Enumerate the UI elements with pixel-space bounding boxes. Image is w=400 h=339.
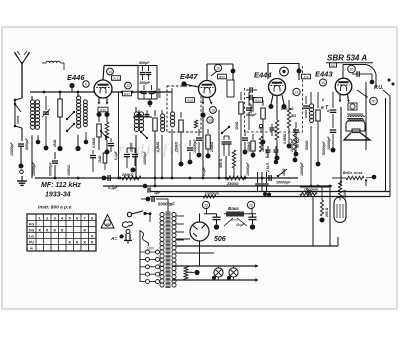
box label R19 (186, 98, 195, 103)
pickup arrow (357, 90, 367, 97)
resistor 500k E444 (275, 120, 279, 140)
svg-text:12: 12 (126, 84, 130, 88)
svg-text:4-9: 4-9 (304, 75, 309, 79)
bus earth y178 (35, 177, 298, 179)
svg-text:c: c (306, 187, 308, 191)
tube E446 (94, 80, 112, 98)
svg-text:2: 2 (46, 217, 48, 221)
svg-text:50000pF: 50000pF (322, 141, 326, 155)
bus y191.5 (150, 191, 390, 193)
badge 16 (210, 107, 217, 114)
svg-text:100KΩ: 100KΩ (67, 165, 71, 176)
capacitor 10000pF aerial (21, 128, 23, 141)
screen resistor (106, 116, 108, 122)
caps x333 column (332, 92, 334, 108)
speaker magnet (346, 121, 365, 131)
caps pair stage E444 (249, 87, 251, 93)
svg-text:50000: 50000 (305, 140, 309, 150)
dial lamp 2 (229, 268, 238, 277)
svg-text:E446: E446 (67, 73, 85, 82)
wire sw to transformer (149, 212, 152, 215)
output transformer windings (348, 116, 364, 117)
svg-text:50 KΩ: 50 KΩ (296, 138, 300, 148)
svg-text:15: 15 (204, 203, 208, 207)
blob grid E446 (69, 83, 74, 88)
resistor anode E446 (98, 116, 100, 122)
svg-text:250kΩ: 250kΩ (175, 141, 179, 153)
tube E443 pins arrows (339, 95, 341, 102)
shield box IF2 (245, 66, 303, 132)
badge 26 (348, 65, 356, 73)
power transformer core (166, 212, 171, 288)
svg-text:250kΩ: 250kΩ (247, 141, 251, 153)
coil L4 (84, 100, 88, 104)
secondary winding loops (172, 212, 176, 216)
switch S1 aerial (15, 98, 22, 128)
svg-text:SBR 534 A: SBR 534 A (327, 54, 367, 63)
svg-text:50000pF: 50000pF (49, 162, 53, 176)
wire stage3 bottoms (171, 146, 173, 178)
wire antenna-stage1 (21, 92, 23, 100)
box label R17 (123, 91, 132, 96)
resistor sopr2 (300, 192, 317, 195)
resistor 250k stage3 (180, 112, 182, 118)
svg-text:250kΩ: 250kΩ (210, 141, 214, 153)
ground (21, 176, 23, 181)
svg-text:1μF: 1μF (154, 191, 161, 195)
resistor 2500 ohm bus (227, 176, 246, 180)
badge 5 (83, 81, 89, 87)
resistor field coil (346, 176, 364, 180)
capacitor 500pF b (148, 66, 150, 72)
zig 1000 (232, 150, 235, 168)
grid leak E444 (262, 100, 264, 106)
wire stage5 bottom (310, 152, 312, 186)
arrow field (365, 180, 367, 186)
svg-text:19: 19 (321, 81, 325, 85)
svg-text:MF: 112 kHz: MF: 112 kHz (41, 182, 81, 189)
badge 10 (214, 64, 221, 71)
speaker cone (344, 133, 370, 140)
coil L1 (31, 96, 33, 100)
box label KK (330, 63, 337, 67)
wire x313 drop (312, 197, 314, 247)
smoothing cap right (252, 214, 254, 217)
badge grid cap E444 (280, 67, 289, 76)
svg-text:250KΩ: 250KΩ (121, 173, 134, 177)
anode blob E447 (181, 81, 186, 86)
svg-text:300 Ω: 300 Ω (219, 158, 223, 168)
svg-text:8: 8 (91, 217, 93, 221)
svg-text:5: 5 (69, 217, 71, 221)
svg-text:10: 10 (216, 66, 220, 70)
svg-text:x: x (68, 239, 71, 244)
wire rect cathode drop (199, 241, 201, 266)
blobs under trio (263, 192, 267, 196)
primary winding loops (160, 212, 164, 216)
fuse cloud (122, 222, 132, 228)
svg-text:0,5MΩ: 0,5MΩ (92, 137, 96, 148)
wire rect left (176, 238, 190, 240)
wire E443 top (342, 65, 344, 79)
svg-text:10000: 10000 (16, 115, 20, 124)
smoothing cap left (216, 214, 218, 217)
capacitor pair b (134, 148, 136, 153)
badge 12 (125, 82, 132, 89)
svg-text:OG: OG (29, 228, 35, 232)
svg-text:1933-34: 1933-34 (45, 192, 71, 199)
speaker neck (352, 129, 360, 133)
resistor 280 vertical (338, 181, 341, 198)
svg-text:x: x (91, 239, 94, 244)
svg-text:KG: KG (29, 222, 35, 226)
wire top bus stage1 (30, 91, 172, 93)
wire stage2 bottom (135, 152, 137, 178)
svg-text:0,1μF: 0,1μF (202, 166, 206, 176)
svg-text:14: 14 (108, 70, 112, 74)
svg-text:800pF: 800pF (246, 113, 257, 117)
svg-text:w: w (29, 246, 33, 250)
svg-text:0,1μF: 0,1μF (108, 186, 118, 190)
bus y196.5 (150, 196, 390, 198)
caps E443 grid (305, 96, 307, 104)
svg-text:110V: 110V (147, 247, 155, 251)
capacitor 10000pF E447 (198, 129, 200, 136)
svg-text:radiofil: radiofil (118, 142, 183, 158)
caps trio x262 (261, 172, 263, 183)
wire smoothing bus (204, 213, 217, 215)
svg-text:500 kΩ: 500 kΩ (281, 107, 294, 111)
resistor 2M (58, 99, 62, 117)
wire right top curve (366, 65, 376, 89)
capacitor x93 (92, 150, 94, 154)
coil x162 (161, 110, 163, 114)
svg-text:5Ω: 5Ω (291, 114, 296, 118)
svg-text:200 Ω: 200 Ω (325, 207, 329, 218)
tube E447 pins (202, 97, 204, 103)
tube E443 (335, 78, 352, 95)
fuse wiggle (140, 231, 149, 246)
box label R13 (98, 107, 108, 112)
trimmer C2 (45, 96, 47, 110)
svg-text:10000pF: 10000pF (327, 136, 331, 150)
wire right vertical b (389, 96, 391, 197)
capacitor 1uF bus left (147, 188, 149, 193)
capacitor col x249 (248, 92, 250, 106)
svg-text:8000pF: 8000pF (25, 137, 29, 150)
resistor 250k box E447 (207, 129, 209, 134)
svg-text:Вобл. пч ка: Вобл. пч ка (343, 171, 362, 175)
svg-text:x: x (76, 239, 79, 244)
capacitor 500pF a (142, 66, 144, 72)
dial lamp 1 (214, 268, 223, 277)
switch wave change (67, 112, 74, 119)
caps row y150 a (267, 146, 269, 149)
svg-text:0,5MΩ: 0,5MΩ (283, 133, 287, 144)
svg-text:x: x (53, 227, 56, 232)
wires lamp (300, 186, 330, 188)
svg-text:x: x (83, 239, 86, 244)
svg-text:800pF: 800pF (249, 102, 253, 113)
zig stage4 (259, 136, 262, 152)
wire pu corner (371, 74, 373, 80)
tube E446 pins (98, 98, 100, 104)
mains switch (127, 212, 131, 216)
resistor 250k stage4 (252, 134, 254, 140)
svg-text:Instr. 800 a p.v.: Instr. 800 a p.v. (38, 205, 72, 211)
switch diag buses (278, 169, 287, 176)
svg-text:P.U.: P.U. (374, 85, 383, 91)
caps row y150 b (275, 146, 277, 149)
badge stub a (206, 208, 208, 214)
capacitor 0.1uF bus (107, 175, 109, 181)
coil L2 (35, 100, 39, 104)
svg-text:10000pF: 10000pF (193, 139, 197, 153)
svg-text:E447: E447 (180, 72, 198, 81)
wire stage1 bottom (31, 160, 33, 178)
aerial input coil (46, 61, 60, 63)
caps pair stage3 (223, 136, 225, 140)
vertical wire x219 (218, 110, 220, 178)
svg-text:R21: R21 (219, 75, 225, 79)
svg-text:5: 5 (85, 82, 87, 86)
svg-text:26: 26 (350, 67, 354, 71)
cap C top E443 (356, 71, 358, 77)
svg-text:R19: R19 (187, 99, 193, 103)
svg-text:10000pF: 10000pF (300, 162, 304, 176)
svg-text:16: 16 (211, 108, 215, 112)
switch diag x144 (141, 132, 147, 138)
box label R21 (218, 74, 227, 79)
tube E447 (199, 81, 216, 98)
svg-text:14-11: 14-11 (112, 77, 120, 81)
capacitor pair a (126, 148, 128, 153)
svg-text:30: 30 (372, 99, 376, 103)
svg-text:26: 26 (249, 203, 253, 207)
svg-text:x: x (61, 227, 64, 232)
bus y186 (103, 185, 332, 187)
caps trio x266 (266, 172, 268, 183)
svg-text:x: x (38, 227, 41, 232)
svg-text:7: 7 (84, 217, 86, 221)
coil IF1 secondary (139, 112, 143, 116)
badge 14 (107, 68, 114, 75)
tube E444 pins (271, 95, 273, 104)
antenna (21, 62, 23, 98)
wire hv right drop (337, 237, 339, 246)
pointer lines (224, 218, 233, 226)
blob coupling (148, 101, 153, 106)
svg-text:1МΩ: 1МΩ (98, 155, 102, 163)
capacitor x272 (271, 124, 273, 127)
capacitor 0.1uF stage2 (110, 138, 112, 142)
svg-text:2500Ω: 2500Ω (226, 182, 238, 186)
svg-text:506: 506 (214, 236, 226, 243)
wire stage4 (240, 130, 242, 178)
tube E444 (269, 79, 286, 96)
coil L3 (77, 96, 81, 100)
svg-text:800pF: 800pF (140, 81, 151, 85)
trimmer T stage4 (259, 124, 262, 127)
badge 15 (202, 201, 209, 208)
svg-text:3: 3 (54, 217, 56, 221)
svg-text:0,5MΩ: 0,5MΩ (156, 141, 160, 152)
heater line 1 (172, 265, 256, 267)
junction dots bus2 (154, 185, 157, 188)
svg-text:800pF: 800pF (158, 87, 162, 98)
caps x296 pair (295, 122, 297, 128)
resistor 50K x295 (294, 128, 296, 132)
wire E444 top box (268, 64, 299, 81)
svg-text:300Ω: 300Ω (235, 121, 239, 130)
resistor sopr (203, 195, 216, 198)
svg-text:x: x (83, 227, 86, 232)
wire right vertical a (385, 98, 387, 192)
resistor R stage2 (154, 110, 156, 116)
svg-text:10000pF: 10000pF (32, 162, 36, 176)
svg-text:Вакг: Вакг (228, 206, 239, 211)
resistor 200 vertical (321, 187, 323, 200)
wire left drop (34, 171, 36, 178)
badge 22 (293, 88, 300, 95)
wire coupling (149, 99, 151, 107)
svg-text:10000pF: 10000pF (246, 162, 250, 176)
capacitor 50000pF psu (151, 196, 153, 202)
selector table (27, 214, 96, 251)
resistor zig stage3 (194, 120, 197, 128)
svg-text:R17: R17 (124, 92, 130, 96)
capacitor 100pF mid (244, 130, 246, 136)
grid cap E447 box (227, 80, 234, 97)
wire y253 (176, 252, 214, 254)
wire grid-cap E446 (104, 65, 138, 67)
coil x311 (310, 92, 312, 104)
badge in box 27 (348, 103, 357, 110)
primary tap circles (146, 250, 150, 254)
choke block (226, 212, 244, 217)
svg-text:0,1μF: 0,1μF (114, 150, 118, 160)
svg-text:PU: PU (29, 240, 34, 244)
badge 18 (207, 117, 213, 123)
ballast lamp (334, 197, 346, 223)
svg-text:R23: R23 (255, 99, 261, 103)
switch diag x102 (101, 131, 106, 137)
IF trimmer box (138, 66, 157, 100)
resistor 0.5M x289 (288, 100, 290, 108)
phone dots (388, 79, 391, 82)
svg-text:R13: R13 (100, 108, 106, 112)
resistor col x241 (240, 92, 242, 100)
svg-text:1: 1 (39, 217, 41, 221)
badge stub b (251, 208, 253, 214)
svg-text:18: 18 (208, 118, 212, 122)
resistor 250K bus (122, 176, 141, 180)
coil IF1 primary (135, 107, 137, 112)
capacitor 50000pF stage1 (54, 152, 56, 159)
svg-text:x: x (91, 233, 94, 238)
capacitor stage3 a (189, 140, 191, 146)
box label 4-9 (302, 74, 311, 79)
svg-text:20000: 20000 (130, 142, 134, 153)
badge 19 (320, 79, 327, 86)
wire to speaker (340, 107, 342, 186)
svg-text:6: 6 (76, 217, 78, 221)
svg-text:2MΩ: 2MΩ (53, 139, 57, 148)
svg-text:A=: A= (110, 236, 117, 242)
wire hv y246 (176, 245, 338, 247)
heater line 2 (172, 279, 256, 281)
resistor box x105 (103, 153, 107, 163)
svg-text:2 М.Л.: 2 М.Л. (266, 162, 270, 173)
wire right of speaker (365, 82, 367, 150)
capacitor 800pF a (143, 85, 145, 90)
rectifier anode stub (199, 214, 201, 223)
coil E447 stage (171, 88, 173, 112)
switch stage3 (222, 127, 229, 133)
svg-text:22: 22 (295, 90, 299, 94)
badge 26b (247, 201, 254, 208)
box label R23 (254, 98, 263, 103)
capacitor 800pF b (151, 85, 153, 90)
rectifier tube 506 (190, 222, 209, 241)
svg-text:10000pF: 10000pF (276, 181, 291, 185)
cap c bottom right (308, 194, 310, 197)
svg-text:50000pF: 50000pF (158, 202, 175, 207)
svg-text:500pF: 500pF (139, 61, 150, 65)
svg-text:E444: E444 (254, 71, 272, 80)
tap bus left (139, 230, 141, 282)
shield box IF (167, 86, 201, 132)
caps trio x257 (257, 172, 259, 183)
caps row y117 (133, 116, 152, 118)
cathode wire x118 (118, 92, 120, 178)
wire E447 top (206, 64, 208, 81)
secondary taps (176, 215, 184, 217)
box label R11 (112, 76, 121, 81)
resistor heater vertical (184, 266, 188, 280)
svg-text:10000pF: 10000pF (143, 151, 147, 165)
badge 30 (370, 97, 378, 105)
svg-text:LG: LG (29, 234, 34, 238)
warning triangle 40 (101, 215, 114, 229)
svg-text:x: x (46, 227, 49, 232)
svg-text:E443: E443 (315, 70, 333, 79)
resistor x318 (317, 92, 319, 108)
svg-text:10000pF: 10000pF (10, 142, 14, 156)
